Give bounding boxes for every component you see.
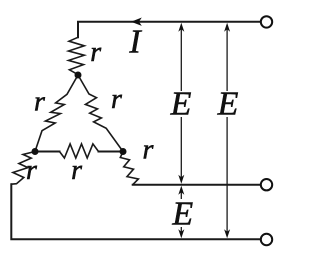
resistor r1 (top vertical) xyxy=(69,37,85,74)
node C (right of delta) xyxy=(120,148,127,155)
svg-text:r: r xyxy=(26,155,37,186)
wire top line xyxy=(78,22,260,38)
measure line E3 lower segment xyxy=(180,227,182,235)
svg-text:r: r xyxy=(71,155,82,186)
wire middle line xyxy=(133,184,260,186)
resistor r5 (lower-left line resistor) xyxy=(11,152,35,185)
svg-text:r: r xyxy=(90,37,101,68)
arrowhead E1 up xyxy=(178,23,184,32)
measure line E2 lower segment xyxy=(226,117,228,235)
svg-text:E: E xyxy=(217,86,239,123)
svg-text:r: r xyxy=(34,87,45,118)
svg-text:E: E xyxy=(170,86,192,123)
arrowhead E2 down xyxy=(224,229,230,238)
resistor r4 (bottom horizontal) xyxy=(60,144,99,158)
svg-text:E: E xyxy=(171,196,193,233)
resistor r2 (left diagonal) xyxy=(35,75,78,152)
measure line E3 upper segment xyxy=(180,190,182,199)
measure line E2 upper segment xyxy=(226,25,228,91)
resistor r6 (lower-right line resistor) xyxy=(120,152,138,185)
svg-text:r: r xyxy=(111,84,122,115)
node B (left of delta) xyxy=(32,148,39,155)
arrowhead E2 up xyxy=(224,23,230,32)
node A (top of delta) xyxy=(75,72,82,79)
measure line E1 lower segment xyxy=(180,117,182,180)
arrowhead E3 up xyxy=(178,186,184,195)
resistor r3 (right diagonal) xyxy=(78,75,123,152)
terminal middle-right xyxy=(261,179,272,190)
arrowhead E3 down xyxy=(178,229,184,238)
wire bottom-left lead xyxy=(35,151,60,153)
terminal bottom-right xyxy=(261,234,272,245)
wire left vertical and bottom line xyxy=(11,184,260,239)
svg-text:r: r xyxy=(143,135,154,166)
svg-text:I: I xyxy=(128,24,142,61)
measure line E1 upper segment xyxy=(180,25,182,91)
terminal top-right xyxy=(261,16,272,27)
wire bottom-right lead xyxy=(99,151,124,153)
current arrow I on top wire xyxy=(131,18,142,26)
arrowhead E1 down xyxy=(178,175,184,184)
